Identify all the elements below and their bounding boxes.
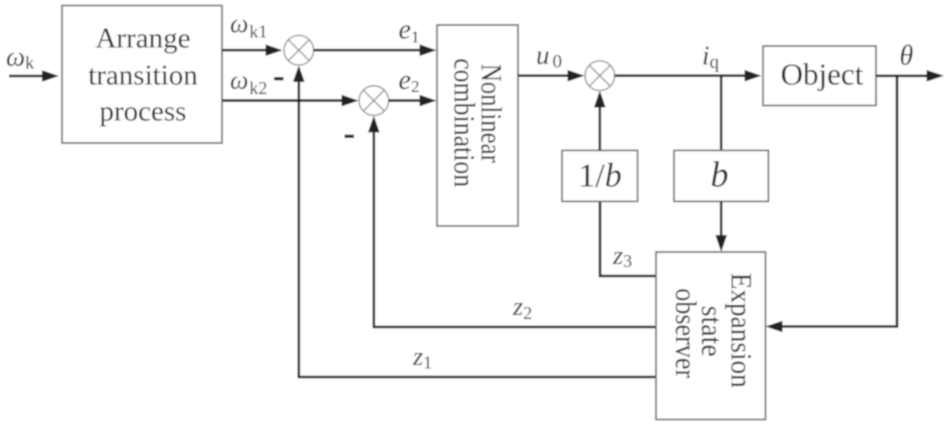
- wire omega_k1: [222, 44, 283, 56]
- block Expansion state observer: [656, 252, 766, 420]
- summing junction S3: [585, 61, 615, 91]
- block 1/b: [562, 150, 638, 201]
- minus sign at summing junction S2: [345, 135, 355, 138]
- block Object: [763, 46, 876, 106]
- wire b to observer: [715, 201, 727, 252]
- minus sign at summing junction S1: [274, 77, 284, 80]
- summing junction S1: [284, 35, 314, 65]
- svg-text:1/b: 1/b: [578, 158, 621, 195]
- svg-text:Object: Object: [781, 57, 864, 92]
- svg-text:combination: combination: [447, 58, 480, 187]
- wire z2 feedback: [368, 116, 656, 327]
- svg-text:Expansion: Expansion: [725, 273, 758, 388]
- block Nonlinear combination: [437, 25, 518, 226]
- wire u0: [518, 70, 585, 82]
- wire 1/b to S3: [594, 91, 606, 151]
- wire z1 feedback: [293, 65, 656, 377]
- summing junction S2: [359, 86, 389, 116]
- svg-text:b: b: [711, 155, 729, 195]
- wire z3 observer to 1/b: [600, 201, 656, 276]
- block b: [674, 150, 768, 201]
- wire e2: [389, 95, 437, 107]
- block Arrange transition process: [62, 6, 222, 144]
- wire e1: [314, 44, 437, 56]
- svg-text:process: process: [100, 96, 187, 128]
- wire iq branch down to block b: [720, 76, 723, 151]
- wire theta feedback to observer: [766, 76, 898, 333]
- svg-text:observer: observer: [669, 288, 702, 378]
- wire theta output: [876, 70, 944, 82]
- wire iq rail S3 to Object: [615, 70, 762, 82]
- wire input omega_k arrow: [9, 70, 59, 82]
- svg-text:transition: transition: [88, 60, 198, 92]
- wire omega_k2: [222, 95, 359, 107]
- svg-text:Arrange: Arrange: [95, 23, 190, 55]
- svg-text:θ: θ: [900, 41, 914, 72]
